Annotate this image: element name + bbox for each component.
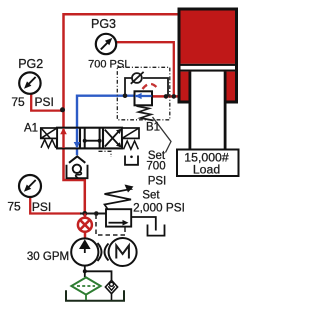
svg-text:75: 75 bbox=[11, 95, 25, 109]
wire: blue return line DCV B-port to counterbalance valve bbox=[77, 96, 152, 128]
leader line Set 700 PSI bbox=[153, 117, 172, 153]
pressure gauge PG2 bbox=[19, 72, 40, 93]
test point (red circle with X) on pump line bbox=[78, 218, 92, 232]
tank symbol below relief valve bbox=[148, 225, 165, 236]
wire: blue return stub DCV T-port to tank bbox=[76, 149, 78, 156]
svg-text:PG3: PG3 bbox=[91, 17, 116, 31]
wire: relief valve outlet to tank bbox=[131, 217, 156, 231]
wire: red line bottom gauge to pump junction bbox=[30, 196, 81, 214]
solenoid right of DCV bbox=[122, 128, 139, 138]
wire: red pump pressure line DCV P-port down with jog bbox=[64, 148, 85, 213]
reservoir tank (open container) bbox=[66, 290, 124, 301]
pressure gauge PG1 (bottom 75 PSI) bbox=[19, 175, 41, 197]
solenoid left of DCV bbox=[41, 128, 57, 138]
pilot dashed line of relief valve bbox=[96, 215, 125, 236]
cylinder piston bbox=[181, 64, 236, 72]
wire: pump suction line bbox=[83, 266, 112, 281]
svg-text:PSI: PSI bbox=[148, 176, 167, 188]
directional control valve DCV body bbox=[57, 128, 122, 149]
wire: red line PG3 to rod-end line bbox=[114, 42, 174, 96]
wire: red pressure line DCV A-port to cylinder cap end bbox=[64, 14, 180, 128]
svg-text:700 PSI: 700 PSI bbox=[88, 59, 127, 71]
relief valve RV1 envelope bbox=[106, 209, 131, 226]
svg-text:PSI: PSI bbox=[35, 95, 54, 109]
drain dash-dot line below DCV bbox=[99, 151, 112, 157]
pump P1 bbox=[71, 238, 98, 265]
tank symbol below DCV T-port (funnel with drop) bbox=[67, 156, 88, 178]
node: junction rod line 2 bbox=[172, 94, 177, 99]
svg-text:700: 700 bbox=[146, 161, 165, 173]
DCV centre envelope (blocked/float pattern) bbox=[83, 128, 102, 148]
spring right of DCV bbox=[124, 141, 139, 149]
pilot line (red dashed arc) of counterbalance valve bbox=[143, 84, 159, 90]
cylinder rod-side fluid (red) bbox=[181, 72, 236, 101]
node: junction A1 line bbox=[60, 107, 65, 112]
cylinder rod bbox=[189, 72, 227, 150]
electric motor M1 bbox=[109, 238, 137, 266]
spring left of DCV bbox=[41, 140, 56, 148]
counterbalance valve enclosure (dash-dot box) bbox=[117, 67, 170, 120]
node: junction blue bypass bbox=[123, 93, 128, 98]
svg-text:A1: A1 bbox=[24, 123, 38, 135]
check valve CV1 (circle with seat line) bbox=[131, 72, 144, 84]
spring of counterbalance valve bbox=[137, 106, 154, 121]
node: junction pump riser bbox=[82, 211, 87, 216]
wire: red pump outlet riser bbox=[84, 214, 87, 240]
svg-text:B1: B1 bbox=[146, 122, 160, 134]
svg-text:PSI: PSI bbox=[32, 200, 51, 214]
wire: red line pressure gauge PG2 to A-line bbox=[31, 92, 63, 111]
svg-text:Load: Load bbox=[193, 163, 221, 177]
svg-text:75: 75 bbox=[7, 200, 21, 214]
shaft coupling between pump and motor bbox=[98, 243, 109, 261]
DCV left envelope flow arrows (P to A red up, B to T blue down) bbox=[60, 128, 80, 149]
return filter F1 (small diamond with check) bbox=[105, 280, 117, 293]
svg-text:PG2: PG2 bbox=[18, 57, 43, 71]
node: junction rod line 1 bbox=[164, 94, 169, 99]
wire: check valve bypass loop bbox=[125, 78, 168, 96]
spring of relief valve bbox=[105, 185, 134, 209]
svg-text:30 GPM: 30 GPM bbox=[27, 251, 69, 263]
cylinder cap-side fluid (red) bbox=[181, 11, 236, 64]
DCV right envelope crossed arrows bbox=[105, 129, 122, 148]
wire: black line pump junction to relief valve inlet bbox=[80, 213, 106, 215]
load box 15000 lb bbox=[177, 150, 239, 177]
pressure gauge PG3 bbox=[96, 34, 116, 54]
cylinder CYL1 barrel bbox=[178, 8, 239, 104]
svg-text:2,000 PSI: 2,000 PSI bbox=[133, 201, 185, 215]
counterbalance valve CB1 envelope bbox=[135, 91, 153, 105]
wire: red rod-end line counterbalance valve to cylinder bbox=[152, 95, 179, 98]
node: junction relief pilot tap bbox=[94, 211, 99, 216]
small tank symbol right drain bbox=[125, 156, 138, 165]
strainer S1 (green diamond) bbox=[71, 277, 100, 294]
